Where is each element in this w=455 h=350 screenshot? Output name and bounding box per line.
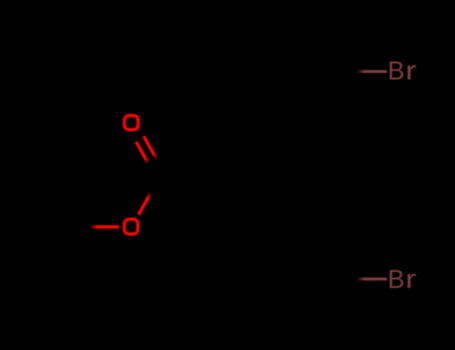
svg-text:r: r: [405, 266, 416, 294]
svg-text:B: B: [388, 58, 405, 86]
svg-text:B: B: [388, 266, 405, 294]
svg-text:r: r: [405, 57, 416, 85]
